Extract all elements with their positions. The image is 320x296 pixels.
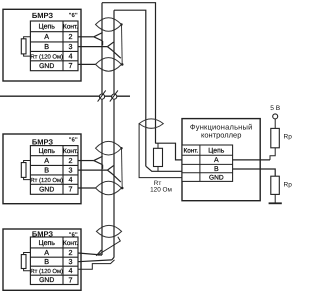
wire pin 3 of БМРЗ #2 [78, 169, 107, 171]
svg-text:В: В [214, 166, 219, 173]
functional controller block [182, 119, 260, 201]
wire tap fork A (block 2) [94, 156, 103, 169]
screen continuity link (block 2) [120, 147, 123, 189]
wire A into controller [155, 143, 182, 160]
pin name GND [39, 187, 54, 194]
wire controller A to Rр1 [233, 159, 270, 161]
svg-text:2: 2 [69, 32, 73, 41]
pin name B [44, 257, 49, 266]
controller title line 1 [190, 123, 253, 132]
svg-text:120 Ом: 120 Ом [150, 186, 172, 193]
pin number 2 [69, 248, 73, 257]
wire pin 3 of БМРЗ #1 [78, 46, 107, 48]
device title БМРЗ [32, 11, 54, 20]
svg-text:GND: GND [39, 277, 54, 284]
header Конт. [63, 240, 78, 247]
wire pin 2 of БМРЗ #1 [78, 36, 94, 38]
svg-text:7: 7 [69, 185, 73, 194]
screen tail diagonal (block 3) [98, 237, 121, 255]
pin table connector 6 [30, 146, 78, 195]
screen ellipse cable segment 2 top [96, 181, 122, 195]
svg-text:Конт.: Конт. [63, 148, 78, 155]
internal resistor Rт of БМРЗ #1 [21, 37, 30, 56]
wire controller B to Rр2 [233, 169, 276, 176]
wire pin 2 of БМРЗ #3 [78, 253, 102, 255]
wire tap fork B (block 1) [107, 42, 120, 58]
screen continuity link (block 1) [120, 23, 123, 65]
pin number 4 [69, 175, 73, 184]
svg-text:А: А [44, 156, 49, 165]
svg-text:Конт.: Конт. [63, 24, 78, 31]
pin number 3 [69, 42, 73, 51]
svg-text:7: 7 [69, 61, 73, 70]
svg-text:Конт.: Конт. [183, 147, 198, 154]
svg-text:3: 3 [69, 257, 73, 266]
pin table connector 6 [30, 21, 78, 71]
svg-text:7: 7 [69, 275, 73, 284]
value label Rр (pull-up) [284, 134, 293, 141]
svg-text:GND: GND [209, 174, 224, 181]
device title БМРЗ [32, 137, 54, 146]
svg-text:В: В [44, 42, 49, 51]
pin number 2 [69, 156, 73, 165]
svg-text:4: 4 [69, 266, 73, 275]
pull-up resistor Rр1 [271, 128, 280, 147]
svg-text:контроллер: контроллер [201, 131, 241, 140]
screen drop to controller GND [139, 124, 182, 178]
pin name B [44, 165, 49, 174]
bus wire B top jog to controller [114, 10, 146, 166]
svg-text:В: В [44, 257, 49, 266]
svg-text:В: В [44, 165, 49, 174]
value label 120 Ом [150, 186, 172, 193]
internal resistor Rт of БМРЗ #3 [21, 253, 30, 271]
svg-text:БМРЗ: БМРЗ [32, 11, 54, 20]
svg-text:БМРЗ: БМРЗ [32, 137, 54, 146]
svg-text:Цепь: Цепь [38, 24, 55, 31]
pin number 7 [69, 275, 73, 284]
screen ellipse cable segment 0 at controller [139, 119, 163, 128]
pin table connector 6 [30, 237, 78, 285]
svg-text:Rт (120 Ом): Rт (120 Ом) [30, 53, 63, 60]
svg-text:А: А [44, 248, 49, 257]
screen ellipse cable segment 2 at БМРЗ #3 [96, 225, 121, 237]
wire tap fork B (block 2) [107, 166, 120, 182]
svg-text:4: 4 [69, 175, 73, 184]
screen ellipse cable segment 0 at БМРЗ #1 [96, 18, 122, 32]
connector name "6" [69, 12, 78, 19]
pin name B [44, 42, 49, 51]
pin name Rт (120 Ом) [30, 268, 63, 275]
pin name GND [39, 277, 54, 284]
wire pin 2 junction stub [98, 254, 102, 256]
pin number 2 [69, 32, 73, 41]
terminating resistor Rт 120 Ом [154, 143, 163, 171]
svg-text:Rт (120 Ом): Rт (120 Ом) [30, 268, 63, 275]
pin number 3 [69, 257, 73, 266]
pin number 4 [69, 52, 73, 61]
svg-text:2: 2 [69, 156, 73, 165]
svg-text:4: 4 [69, 52, 73, 61]
svg-text:"6": "6" [69, 12, 78, 19]
wire Rр2 to ground [274, 194, 276, 203]
header Конт. [63, 148, 78, 155]
svg-text:Rт (120 Ом): Rт (120 Ом) [30, 177, 63, 184]
wire 5 В to Rр1 [274, 119, 276, 128]
device block БМРЗ #2 [3, 134, 81, 204]
pin number 7 [69, 185, 73, 194]
controller title line 2 [201, 131, 241, 140]
supply terminal 5 В [270, 105, 280, 119]
detachable contact on wire A [98, 90, 106, 101]
value label Rр (pull-down) [284, 182, 293, 189]
bus wire A vertical run [101, 3, 103, 255]
wire B into controller [146, 166, 182, 171]
screen ellipse cable segment 1 top [96, 58, 122, 72]
header Цепь [38, 148, 55, 155]
header Конт. [63, 24, 78, 31]
termination jumper pin 4 to B (block 3) [78, 260, 115, 269]
connector name "6" [69, 231, 78, 238]
detachable contact on wire B [110, 90, 118, 101]
controller header Цепь [208, 147, 224, 154]
wire pin 7 GND of БМРЗ #2 [78, 187, 96, 189]
wire pin 2 of БМРЗ #2 [78, 160, 94, 162]
svg-text:Цепь: Цепь [38, 240, 55, 247]
pin name A [44, 32, 49, 41]
svg-text:GND: GND [39, 63, 54, 70]
controller pin B [214, 166, 219, 173]
svg-text:3: 3 [69, 166, 73, 175]
svg-text:Конт.: Конт. [63, 240, 78, 247]
pull-down resistor Rр2 [271, 176, 280, 194]
wire Rр1 to line A [270, 148, 275, 160]
svg-text:3: 3 [69, 42, 73, 51]
controller pin A [214, 157, 219, 164]
device title БМРЗ [32, 229, 54, 238]
svg-text:Rр: Rр [284, 182, 293, 189]
svg-text:Цепь: Цепь [208, 147, 224, 154]
svg-text:А: А [44, 32, 49, 41]
pin name A [44, 156, 49, 165]
internal resistor Rт of БМРЗ #2 [21, 161, 30, 180]
pin number 3 [69, 166, 73, 175]
device block БМРЗ #1 [3, 9, 81, 81]
header Цепь [38, 24, 55, 31]
svg-text:GND: GND [39, 187, 54, 194]
pin number 7 [69, 61, 73, 70]
pin name Rт (120 Ом) [30, 53, 63, 60]
device block БМРЗ #3 [3, 229, 81, 290]
value label Rт [154, 180, 162, 187]
pin number 4 [69, 266, 73, 275]
wire corner B to pin 3 (block 3) [112, 257, 114, 260]
controller pin GND [209, 174, 224, 181]
bus wire A top jog to controller [102, 3, 156, 144]
wire pin 7 GND of БМРЗ #1 [78, 63, 96, 65]
svg-text:2: 2 [69, 248, 73, 257]
svg-text:"6": "6" [69, 136, 78, 143]
svg-text:А: А [214, 157, 219, 164]
screen tail break tick [96, 250, 101, 256]
pin name A [44, 248, 49, 257]
svg-text:Rр: Rр [284, 134, 293, 141]
connector name "6" [69, 136, 78, 143]
controller pin table [182, 145, 233, 181]
wire pin 3 of БМРЗ #3 [78, 260, 112, 262]
wire tap fork A (block 1) [94, 33, 103, 46]
pin name GND [39, 63, 54, 70]
panel boundary line [0, 95, 130, 97]
ground [269, 202, 282, 204]
svg-text:Цепь: Цепь [38, 148, 55, 155]
screen ellipse cable segment 1 bottom [96, 141, 122, 155]
bus wire B vertical run [113, 10, 115, 257]
pin name Rт (120 Ом) [30, 177, 63, 184]
header Цепь [38, 240, 55, 247]
svg-text:5 В: 5 В [270, 105, 280, 112]
controller header Конт. [183, 147, 198, 154]
